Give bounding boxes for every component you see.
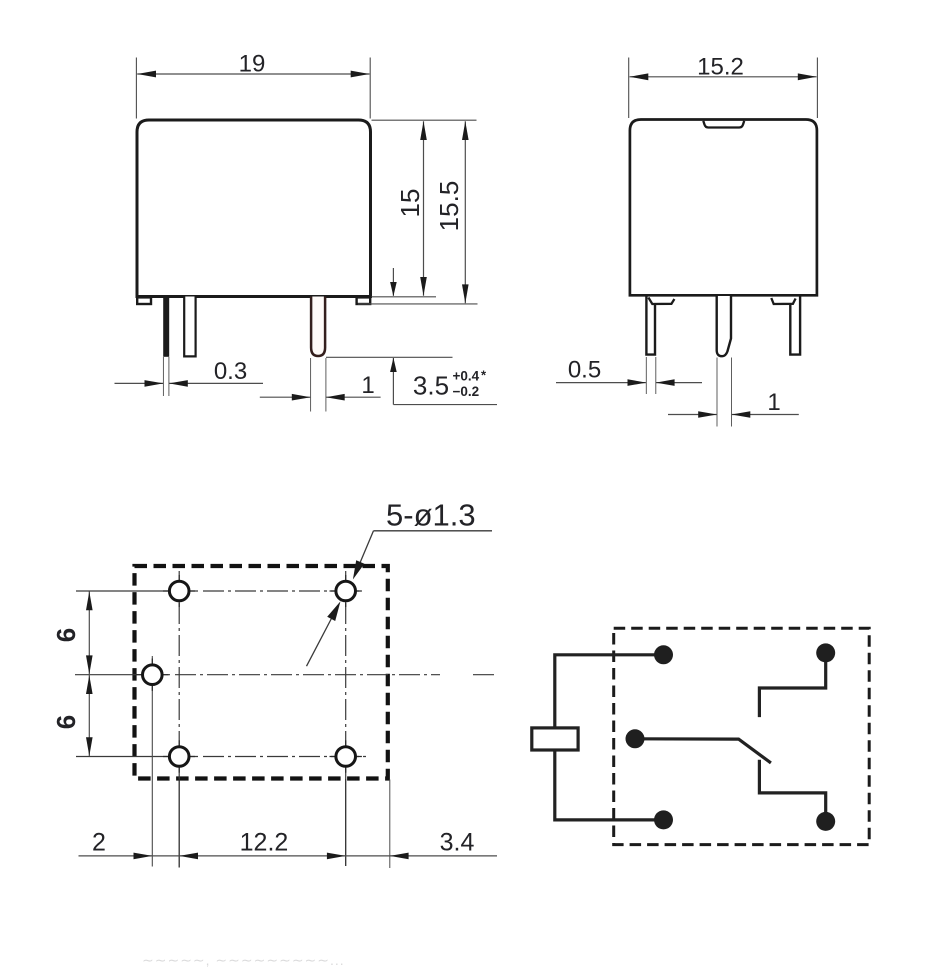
column A centerline (178, 571, 180, 779)
svg-text:15.2: 15.2 (697, 54, 744, 81)
column B centerline (345, 571, 347, 779)
pin 1 solid (left thin pin) (163, 297, 169, 357)
pin dot top-left (654, 645, 673, 664)
dim 0.5 arrow left (628, 379, 647, 386)
dim 3.5 underline (393, 404, 497, 406)
row2 centerline (75, 674, 170, 676)
left boss (648, 298, 674, 305)
side pin left (646, 296, 655, 355)
dim 6 arrow bottom down (86, 737, 93, 756)
hole bottom-left crosshair (163, 756, 195, 758)
dim 0.3 arrow left (145, 380, 164, 387)
svg-text:−0.2: −0.2 (453, 384, 480, 399)
svg-text:5-ø1.3: 5-ø1.3 (386, 498, 476, 533)
dim 19 arrow left (137, 71, 156, 78)
dim 15.2 extension left (628, 58, 630, 119)
case bottom left foot (137, 297, 151, 304)
dim 0.5 extension lines (645, 357, 647, 394)
dim 6 arrows middle (86, 655, 93, 674)
ext line right box edge (389, 780, 391, 869)
dim 15.2 dimension line (630, 76, 817, 78)
pin3 extension lines (310, 358, 312, 412)
svg-text:15: 15 (395, 189, 425, 218)
leader arrowhead lower (327, 601, 340, 621)
dim 1 arrow right (326, 394, 345, 401)
hole middle-left crosshair (136, 674, 168, 676)
dim 15.2 extension right (816, 58, 818, 119)
pin dot bottom-left (654, 810, 673, 829)
svg-text:2: 2 (92, 829, 106, 857)
dim 6 arrow top up (86, 592, 93, 611)
hole bottom-right (336, 747, 356, 767)
svg-text:6: 6 (51, 715, 81, 729)
hole top-right (336, 581, 356, 601)
dim 15.5 dimension line (464, 121, 466, 303)
coil (532, 728, 578, 750)
dim 1 arrow left (292, 394, 311, 401)
schematic dashed box (614, 628, 870, 844)
arrow left into box edge (390, 853, 409, 860)
dim 15.5 arrow top (462, 121, 469, 140)
faint bottom watermark (142, 952, 345, 968)
dim 1 dimension line right part (326, 396, 381, 398)
dim 3.5 arrow up (390, 358, 397, 372)
extension line feet bottom right (358, 303, 478, 305)
dim 1 side arrow left (698, 411, 717, 418)
pin dot middle-left (626, 729, 645, 748)
svg-text:+0.4: +0.4 (453, 369, 480, 384)
row3 centerline (76, 756, 198, 758)
dim 15.2 arrow left (630, 73, 649, 80)
svg-text:0.3: 0.3 (214, 358, 247, 385)
hole top-left (169, 581, 189, 601)
pin dot bottom-right (816, 812, 835, 831)
dim 3.5 arrow down (390, 282, 397, 296)
dim 19 extension line right (369, 58, 371, 119)
dim 1 side arrow right (732, 411, 751, 418)
column C line (151, 656, 153, 867)
svg-text:15.5: 15.5 (434, 181, 464, 232)
dim 0.3 dimension line right part (169, 382, 263, 384)
dim 1 dimension line left part (260, 396, 311, 398)
dim 1 side dimension line left (668, 414, 717, 416)
leader diagonal (356, 531, 374, 574)
leader lower line (307, 616, 334, 667)
arrow right into colC (134, 853, 153, 860)
hole bottom-right crosshair (330, 756, 362, 758)
dim 6 dimension line (88, 592, 90, 757)
hole top-right crosshair (330, 590, 362, 592)
pin dot top-right (816, 643, 835, 662)
right boss (771, 298, 795, 304)
svg-text:1: 1 (361, 372, 374, 399)
svg-text:0.5: 0.5 (568, 357, 601, 384)
dim 1 side dimension line right (732, 414, 799, 416)
hole top-left crosshair (163, 590, 195, 592)
dim 15 arrow top (420, 121, 427, 140)
dim 19 arrow right (351, 71, 370, 78)
dim 15.5 arrow bottom (462, 284, 469, 303)
relay case front outline (137, 120, 371, 297)
arrow right into colB (327, 853, 346, 860)
relay case side outline (630, 120, 817, 296)
side pin right (790, 296, 800, 355)
pin1 extension lines (162, 357, 164, 396)
dim 3.5 upper line (392, 268, 394, 296)
pcb dashed outline (135, 566, 388, 779)
svg-text:3.4: 3.4 (440, 829, 475, 857)
hole bottom-left (169, 747, 189, 767)
dim 19 extension line left (135, 58, 137, 119)
armature wire (635, 739, 771, 763)
svg-text:∼∼∼∼∼, ∼∼∼∼∼∼∼∼∼...: ∼∼∼∼∼, ∼∼∼∼∼∼∼∼∼... (142, 952, 345, 968)
middle pin extension lines (716, 358, 718, 427)
bottom dimension line (79, 855, 498, 857)
pin 3 middle outline rounded bottom (311, 297, 325, 357)
extension line top right of case (372, 119, 477, 121)
svg-text:12.2: 12.2 (240, 829, 289, 857)
dim 0.3 arrow right (169, 380, 188, 387)
leader arrowhead upper (353, 560, 365, 579)
case bottom right foot (357, 297, 371, 304)
NC contact wire (759, 653, 825, 717)
dim 15 dimension line (423, 121, 425, 296)
svg-text:3.5: 3.5 (413, 371, 449, 401)
dim 0.5 dimension line left (556, 382, 646, 384)
coil wire bottom (555, 750, 664, 820)
top notch (703, 121, 744, 128)
dim 0.5 arrow right (656, 379, 675, 386)
dim 3.5 lower line (392, 358, 394, 405)
dim 15.2 arrow right (798, 73, 817, 80)
NO contact wire (759, 760, 825, 822)
leader horizontal line (374, 530, 493, 532)
hole middle-left (143, 665, 163, 685)
arrow left into colA (179, 853, 198, 860)
dim 15 arrow bottom (420, 277, 427, 296)
svg-text:1: 1 (767, 389, 780, 416)
svg-text:19: 19 (239, 51, 266, 78)
coil wire top (555, 655, 664, 728)
row1 centerline (76, 590, 198, 592)
pin3 bottom reference line (326, 356, 453, 358)
pin 2 outline (184, 297, 195, 357)
dim 19 dimension line (137, 73, 369, 75)
dim 0.5 dimension line right (656, 382, 702, 384)
side pin middle chamfered (717, 296, 731, 356)
svg-text:6: 6 (51, 628, 81, 642)
dim 0.3 dimension line left part (115, 382, 164, 384)
extension line case bottom right (372, 296, 437, 298)
